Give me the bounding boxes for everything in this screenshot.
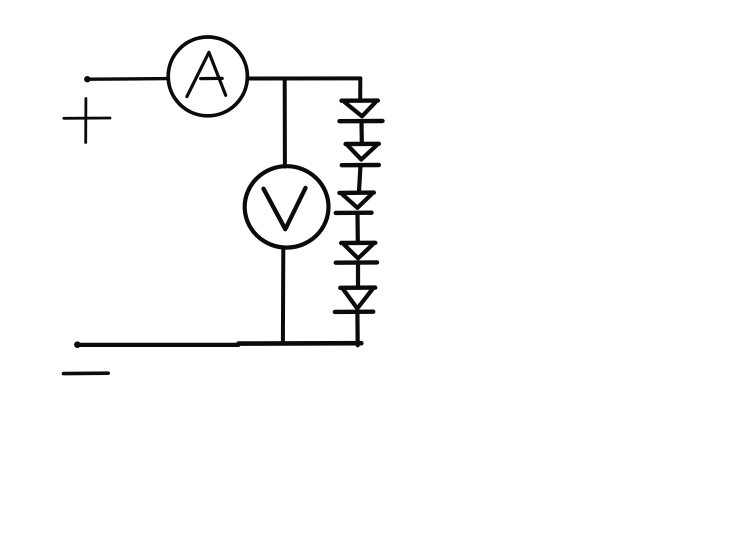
diode D4 <box>336 243 377 263</box>
wire: + terminal to ammeter left <box>89 77 169 81</box>
wire: top-right corner down to diode D1 <box>358 78 362 99</box>
diode D2 <box>342 144 379 165</box>
node: negative supply terminal dot <box>74 341 81 348</box>
wire: bottom rail right segment (corner to voltmeter junction) <box>239 341 362 346</box>
wire: D3 to D4 <box>355 213 359 241</box>
wire: D5 down to bottom-right corner <box>355 312 360 345</box>
voltmeter V (meter circle) <box>245 166 329 247</box>
wire: ammeter right to top-right corner <box>247 76 360 80</box>
voltmeter letter V <box>264 188 306 229</box>
node: positive supply terminal dot <box>84 76 90 82</box>
wire: D4 to D5 <box>356 263 360 286</box>
minus symbol (-) <box>64 371 109 375</box>
diode D5 <box>335 288 375 312</box>
ammeter letter A <box>187 52 226 96</box>
wire: voltmeter bottom to bottom rail <box>281 248 285 342</box>
diode D1 <box>340 101 383 122</box>
wire: junction drop from top wire to voltmeter <box>283 80 287 167</box>
wire: bottom rail left segment (to - terminal) <box>78 343 239 347</box>
plus symbol (+) <box>64 99 110 143</box>
diode D3 <box>336 193 374 213</box>
wire: D1 to D2 <box>359 122 363 143</box>
wire: D2 to D3 <box>359 166 361 192</box>
ammeter A (meter circle) <box>168 37 247 116</box>
